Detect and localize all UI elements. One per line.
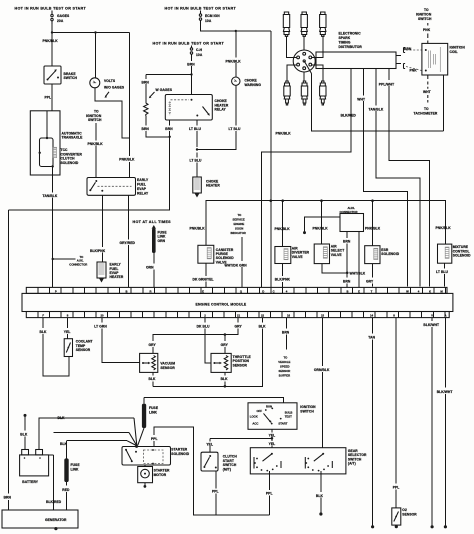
svg-text:LT BLU: LT BLU <box>229 127 241 131</box>
svg-text:PPL: PPL <box>151 437 158 441</box>
wire GRY 5V reference <box>149 318 243 354</box>
ignition switch <box>248 403 316 430</box>
battery <box>20 450 49 484</box>
wire PNK/BLK to choke warning gauge <box>226 31 242 77</box>
svg-text:LINK: LINK <box>71 467 80 471</box>
svg-text:PNK/BLK: PNK/BLK <box>88 142 104 146</box>
wire PNK/BLK ECM IGN to ECM pin C <box>270 31 292 287</box>
resistor W GAGES <box>144 88 173 116</box>
svg-text:WARNING: WARNING <box>245 83 262 87</box>
svg-text:DK GRN/YEL: DK GRN/YEL <box>193 278 214 282</box>
svg-text:SERVICE: SERVICE <box>233 217 245 221</box>
node HOT IN RUN heading left <box>15 6 87 10</box>
svg-text:K: K <box>429 289 431 293</box>
svg-text:P: P <box>55 289 57 293</box>
svg-text:WHT: WHT <box>423 90 431 94</box>
wire crank feed to ignition switch <box>144 397 284 403</box>
svg-text:(M/T): (M/T) <box>223 467 231 471</box>
svg-text:START: START <box>278 421 287 425</box>
heater choke heater element <box>193 177 221 198</box>
svg-text:BLK: BLK <box>58 416 66 420</box>
wire YEL branch to clutch start switch <box>206 438 272 452</box>
svg-text:WHT: WHT <box>357 98 365 102</box>
svg-text:ORN: ORN <box>146 266 154 270</box>
svg-text:PNK/BLK: PNK/BLK <box>190 226 206 230</box>
svg-text:SOLENOID: SOLENOID <box>171 452 189 456</box>
gauge CHOKE WARNING <box>232 77 262 87</box>
svg-text:D: D <box>262 289 264 293</box>
svg-text:F: F <box>42 314 44 318</box>
wire BRN C-H fuse to choke heater relay <box>187 58 195 95</box>
svg-text:14: 14 <box>370 314 374 318</box>
svg-text:TACHOMETER: TACHOMETER <box>414 111 438 115</box>
svg-text:BLK/PNK: BLK/PNK <box>90 249 106 253</box>
node HOT IN RUN heading right <box>165 6 237 10</box>
wire BLK/PNK EFE relay to EFE heater <box>90 195 106 262</box>
svg-text:ACC: ACC <box>252 421 258 425</box>
svg-text:SOLENOID: SOLENOID <box>61 161 79 165</box>
gear selector right rotary contacts <box>305 453 332 474</box>
relay choke heater <box>165 95 229 121</box>
svg-text:20A: 20A <box>57 19 64 23</box>
wire TAN ECM to pigtail <box>368 318 375 529</box>
svg-text:OFF: OFF <box>257 409 263 413</box>
wire BRN choke relay to generator bus <box>4 120 174 510</box>
wire WHT coil to tachometer <box>414 75 438 115</box>
svg-text:BUFFER: BUFFER <box>279 373 290 377</box>
svg-text:INDICATOR: INDICATOR <box>231 231 246 235</box>
wire BLK/WHT ECM pin A to pigtail <box>437 318 453 529</box>
spark plug 1 (top left) <box>283 12 289 36</box>
wire aldl second pin to ECM <box>358 232 360 288</box>
svg-text:BRN: BRN <box>142 127 150 131</box>
wire rotor lead to ignition coil tower <box>304 61 443 131</box>
svg-text:PNK: PNK <box>410 68 418 72</box>
svg-text:PNK/BLK: PNK/BLK <box>119 158 135 162</box>
spark plug 2 (top middle) <box>301 12 307 36</box>
wire YEL ECM to coolant sensor <box>64 318 71 339</box>
wire PPL clutch switch to starter circuit <box>212 471 219 515</box>
svg-text:DISTRIBUTOR: DISTRIBUTOR <box>339 45 363 49</box>
svg-text:ELECTRONIC: ELECTRONIC <box>339 32 362 36</box>
svg-text:HOT IN RUN BULB TEST OR START: HOT IN RUN BULB TEST OR START <box>15 6 87 10</box>
node TO IGNITION SWITCH (volts) <box>86 110 102 122</box>
svg-text:ORN: ORN <box>158 239 166 243</box>
wire PNK/BLK to brake switch <box>43 33 59 67</box>
svg-text:TEST: TEST <box>285 415 292 419</box>
wire PPL/WHT module to ECM pin K <box>379 69 430 287</box>
svg-text:SWITCH: SWITCH <box>88 118 102 122</box>
relay early fuel evap <box>87 178 149 196</box>
node TO IGNITION SWITCH (coil feed) <box>416 8 432 43</box>
wire PPL gear selector to starter circuit <box>266 474 273 515</box>
svg-text:BRN: BRN <box>343 240 351 244</box>
svg-text:SENSOR: SENSOR <box>233 363 248 367</box>
svg-text:TO: TO <box>424 8 429 12</box>
svg-text:LT BLU: LT BLU <box>436 270 448 274</box>
wire BLK sensor ground link to ECM pin 22 <box>149 318 267 388</box>
svg-text:E: E <box>358 289 360 293</box>
svg-text:IGNITION: IGNITION <box>416 13 432 17</box>
wire PPL brake switch to transaxle <box>45 84 53 111</box>
svg-text:MOTOR: MOTOR <box>154 473 167 477</box>
svg-text:WHT/DK GRN: WHT/DK GRN <box>225 263 248 267</box>
fusible link (generator) <box>62 441 80 510</box>
svg-text:ECM IGN: ECM IGN <box>205 14 220 18</box>
svg-text:RUN: RUN <box>266 404 272 408</box>
svg-text:SENSOR: SENSOR <box>279 369 291 373</box>
wire ECM IGN fuse branch y=31 <box>201 24 271 33</box>
distributor cap circle <box>293 50 315 72</box>
solenoid air select valve <box>313 201 345 264</box>
svg-text:A: A <box>444 314 446 318</box>
svg-text:20: 20 <box>100 314 104 318</box>
engine control module body <box>22 293 453 311</box>
wire distributor to plug6 <box>312 65 323 81</box>
svg-text:LOCK: LOCK <box>250 414 258 418</box>
svg-text:SENSOR: SENSOR <box>76 348 91 352</box>
wire GRY/RED EFE relay to ECM <box>120 195 136 287</box>
starter motor <box>138 465 170 488</box>
svg-text:PPL: PPL <box>45 96 52 100</box>
gear selector switch box <box>250 448 367 474</box>
svg-text:YEL: YEL <box>206 442 213 446</box>
svg-text:10A: 10A <box>205 19 212 23</box>
solenoid air diverter valve <box>275 201 310 264</box>
svg-text:GRY: GRY <box>221 343 229 347</box>
svg-text:BRN: BRN <box>282 330 290 334</box>
svg-text:CONNECTOR: CONNECTOR <box>69 263 87 267</box>
fusible link (starter feed) <box>138 397 159 445</box>
svg-text:BLK: BLK <box>221 377 229 381</box>
svg-text:PPL: PPL <box>393 485 400 489</box>
wire PPL solenoid S terminal to clutch circuit <box>151 427 270 515</box>
wire GAGES fuse bus y=32.5 <box>51 24 130 78</box>
svg-text:HEATER: HEATER <box>110 275 124 279</box>
wire BLK ECM pin F ground loop <box>40 318 69 377</box>
wire LT BLU mixture to ECM <box>436 263 448 286</box>
wire BRN branch to W GAGES resistor <box>142 75 192 104</box>
svg-text:EVAP: EVAP <box>137 187 147 191</box>
wire volts gauge bottom jog to PNK/BLK feed <box>95 88 130 138</box>
svg-text:BRN: BRN <box>165 127 173 131</box>
solenoid TCC converter clutch <box>39 111 83 168</box>
wire distributor to plug5 <box>303 72 305 81</box>
brake switch <box>44 66 78 84</box>
engine control module ECM connector top row <box>26 287 447 293</box>
svg-text:HOT IN RUN BULB TEST OR START: HOT IN RUN BULB TEST OR START <box>165 6 237 10</box>
svg-text:DK BLU: DK BLU <box>197 324 210 328</box>
wire plug2 to distributor <box>303 36 305 50</box>
svg-text:TAN/BLK: TAN/BLK <box>369 108 384 112</box>
node TO SERVICE ENGINE SOON INDICATOR <box>231 213 246 235</box>
svg-text:GRY: GRY <box>366 280 374 284</box>
spark plug 5 (bottom middle) <box>301 81 307 105</box>
svg-text:LT BLU: LT BLU <box>190 159 202 163</box>
wire DK GRN/YEL canister to ECM <box>193 263 214 287</box>
wire WHT module to ECM pin W <box>357 69 407 287</box>
svg-text:ORN/BLK: ORN/BLK <box>314 368 330 372</box>
svg-text:PNK/BLK: PNK/BLK <box>43 39 59 43</box>
engine control module ECM connector bottom row <box>26 312 449 318</box>
svg-text:E: E <box>202 289 204 293</box>
wire LT BLU choke relay to choke heater <box>189 120 202 177</box>
wire plug1 to distributor <box>287 36 297 57</box>
svg-text:BLK: BLK <box>40 330 48 334</box>
svg-text:SENSOR: SENSOR <box>160 366 175 370</box>
svg-text:SPEED: SPEED <box>280 364 289 368</box>
sensor O2 <box>392 508 417 528</box>
svg-text:15: 15 <box>321 314 325 318</box>
wire BLK gear selector ground <box>316 474 324 516</box>
svg-text:BLK: BLK <box>259 324 267 328</box>
svg-text:BRN: BRN <box>404 47 412 51</box>
sensor throttle position <box>211 353 252 372</box>
svg-text:PNK/BLK: PNK/BLK <box>226 59 242 63</box>
heater early fuel evap element <box>97 262 124 283</box>
svg-text:B: B <box>125 289 127 293</box>
svg-text:R: R <box>149 289 151 293</box>
svg-text:SOLENOID: SOLENOID <box>381 252 399 256</box>
svg-text:16: 16 <box>287 314 291 318</box>
clutch start switch <box>201 452 237 471</box>
svg-text:YEL: YEL <box>269 434 276 438</box>
sensor coolant temp <box>64 339 92 357</box>
wire LT GRN ECM to vacuum sensor <box>94 318 139 363</box>
svg-text:VALVE: VALVE <box>331 253 343 257</box>
gear selector left rotary contacts <box>254 453 281 474</box>
wire TAN/BLK module to ECM <box>369 69 421 287</box>
node ELECTRONIC SPARK TIMING DISTRIBUTOR label <box>339 32 363 50</box>
battery positive pigtail dot <box>20 414 28 450</box>
svg-text:VALVE: VALVE <box>292 255 304 259</box>
wire PNK/BLK ignition bus y=200.7 <box>190 199 446 245</box>
svg-text:BLK/RED: BLK/RED <box>341 114 357 118</box>
module EST distributor module box <box>316 52 396 69</box>
gauge VOLTS W/O GAGES <box>90 78 125 98</box>
svg-text:SENSOR: SENSOR <box>402 513 417 517</box>
node HOT AT ALL TIMES <box>133 220 172 224</box>
svg-text:BRN: BRN <box>343 280 351 284</box>
svg-text:LT BLU: LT BLU <box>189 127 201 131</box>
wire PNK/BLK ignition feed to EFE relay coil <box>88 123 104 178</box>
fuse C-H 10A <box>190 46 203 59</box>
svg-text:VOLTS: VOLTS <box>104 79 116 83</box>
solenoid canister purge valve <box>198 245 234 264</box>
svg-text:T: T <box>371 289 373 293</box>
starter solenoid <box>122 445 190 465</box>
ignition coil <box>422 43 465 75</box>
svg-text:W: W <box>406 289 409 293</box>
svg-text:ENGINE CONTROL MODULE: ENGINE CONTROL MODULE <box>196 303 247 307</box>
solenoid mixture control <box>436 226 472 263</box>
wire ORN/BLK ECM to gear selector switch <box>314 318 330 448</box>
svg-text:22: 22 <box>261 314 265 318</box>
svg-text:HOT AT ALL TIMES: HOT AT ALL TIMES <box>133 220 172 224</box>
svg-text:BLK/RED: BLK/RED <box>46 500 62 504</box>
node TO AUX CONNECTOR tap <box>53 255 88 267</box>
wire BRN aldl to ECM <box>343 232 351 288</box>
svg-text:YEL: YEL <box>269 442 276 446</box>
wire RED fuse link to starter solenoid <box>60 441 136 446</box>
svg-text:BLK: BLK <box>316 494 324 498</box>
svg-text:LINK: LINK <box>149 410 158 414</box>
svg-text:GAGES: GAGES <box>57 14 70 18</box>
wire PNK/BLK feed to EFE relay contact <box>119 33 135 178</box>
svg-text:GENERATOR: GENERATOR <box>45 518 67 522</box>
svg-text:SOON: SOON <box>235 226 243 230</box>
generator <box>2 510 78 530</box>
svg-text:W GAGES: W GAGES <box>156 88 173 92</box>
svg-text:PPL: PPL <box>266 492 273 496</box>
node HOT IN RUN heading middle <box>153 41 225 45</box>
wire BLK/PNK air diverter to ECM <box>275 264 291 288</box>
wire BLK/WHT ECM pin V to pigtail <box>423 318 439 529</box>
svg-text:BATTERY: BATTERY <box>22 480 38 484</box>
svg-text:SPARK: SPARK <box>339 36 351 40</box>
fuse GAGES 20A <box>51 11 70 25</box>
wire DK BLU ECM to TPS <box>197 318 211 364</box>
svg-text:SOLENOID: SOLENOID <box>453 254 471 258</box>
svg-text:TAN/BLK: TAN/BLK <box>43 194 58 198</box>
svg-text:PNK/BLK: PNK/BLK <box>313 226 329 230</box>
svg-text:BRN: BRN <box>187 62 195 66</box>
svg-text:RED: RED <box>62 488 70 492</box>
svg-text:BLK/WHT: BLK/WHT <box>437 390 453 394</box>
wire plug3 to distributor <box>312 36 323 57</box>
svg-text:RELAY: RELAY <box>215 108 227 112</box>
svg-text:PPL: PPL <box>212 490 219 494</box>
svg-text:GRY: GRY <box>149 343 157 347</box>
solenoid ESR <box>365 201 400 264</box>
sensor vacuum <box>140 353 176 372</box>
pin module output stubs to coil <box>396 47 422 73</box>
connector ALDL <box>340 206 364 232</box>
svg-text:SWITCH: SWITCH <box>418 17 432 21</box>
svg-text:HOT IN RUN BULB TEST OR START: HOT IN RUN BULB TEST OR START <box>153 41 225 45</box>
wire GRY ESR to ECM <box>366 264 374 287</box>
svg-text:EARLY: EARLY <box>137 178 149 182</box>
svg-text:GRY/RED: GRY/RED <box>120 241 136 245</box>
svg-text:10A: 10A <box>196 53 203 57</box>
svg-text:BLK/PNK: BLK/PNK <box>275 278 291 282</box>
fusible link ORN to ECM <box>146 225 167 287</box>
svg-text:PNK: PNK <box>423 28 431 32</box>
svg-text:SWITCH: SWITCH <box>300 409 314 413</box>
wire YEL ignition to gear selector <box>269 429 276 447</box>
wire TAN/BLK TCC to ECM pin P <box>43 166 58 287</box>
wire BRN to vehicle speed buffer <box>278 318 290 378</box>
svg-text:COIL: COIL <box>450 50 458 54</box>
svg-text:BRN: BRN <box>142 80 150 84</box>
wire PNK/BLK aux pigtail <box>303 217 340 234</box>
wire BLK generator-battery to starter solenoid <box>46 433 137 511</box>
svg-text:VEHICLE: VEHICLE <box>278 360 290 364</box>
svg-text:GRY: GRY <box>235 324 243 328</box>
svg-text:W/O GAGES: W/O GAGES <box>104 86 125 90</box>
svg-text:TRANSAXLE: TRANSAXLE <box>62 136 84 140</box>
svg-text:WHT/BLK: WHT/BLK <box>350 272 366 276</box>
automatic transaxle box <box>30 111 83 175</box>
svg-text:PNK/BLK: PNK/BLK <box>365 226 381 230</box>
svg-text:C: C <box>273 289 275 293</box>
svg-text:C-H: C-H <box>196 48 203 52</box>
fuse ECM IGN 10A <box>199 11 220 24</box>
svg-text:YEL: YEL <box>64 330 71 334</box>
svg-text:PPL/WHT: PPL/WHT <box>379 82 394 86</box>
svg-text:21: 21 <box>237 314 241 318</box>
svg-text:FUEL: FUEL <box>137 183 146 187</box>
svg-text:BLK/WHT: BLK/WHT <box>423 323 439 327</box>
spark plug 6 (bottom right) <box>320 81 326 105</box>
svg-text:V: V <box>431 314 433 318</box>
wire WHT/BLK air select to aux brn junction <box>322 264 366 276</box>
svg-text:BRN: BRN <box>4 496 12 500</box>
wire BLK battery to starter solenoid <box>39 416 137 450</box>
svg-text:SWITCH: SWITCH <box>64 76 78 80</box>
spark plug 3 (top right) <box>320 12 326 36</box>
svg-text:TAN: TAN <box>368 336 375 340</box>
svg-text:BLK: BLK <box>20 432 28 436</box>
svg-text:ENGINE: ENGINE <box>234 222 245 226</box>
wire WHT/DK GRN to ECM <box>225 237 248 287</box>
wire resistor bottom to BRN junction <box>142 116 171 138</box>
svg-text:B: B <box>346 289 348 293</box>
svg-text:PNK/BLK: PNK/BLK <box>436 226 452 230</box>
wire LT BLU choke warning to choke heater <box>197 85 241 149</box>
svg-text:RELAY: RELAY <box>137 191 149 195</box>
svg-text:TIMING: TIMING <box>339 41 351 45</box>
svg-text:O2: O2 <box>402 508 407 512</box>
wire PPL ECM to O2 sensor <box>393 318 400 508</box>
svg-text:BLK: BLK <box>149 377 157 381</box>
svg-text:HEATER: HEATER <box>206 184 220 188</box>
wire BLK/RED module to ECM pin D <box>261 69 356 288</box>
svg-text:(A/T): (A/T) <box>348 462 356 466</box>
spark plug 4 (bottom left) <box>284 81 291 105</box>
svg-text:PNK/BLK: PNK/BLK <box>276 131 292 135</box>
svg-text:LT GRN: LT GRN <box>94 324 107 328</box>
svg-text:PNK/BLK: PNK/BLK <box>275 227 291 231</box>
wire distributor to plug4 <box>287 65 297 81</box>
